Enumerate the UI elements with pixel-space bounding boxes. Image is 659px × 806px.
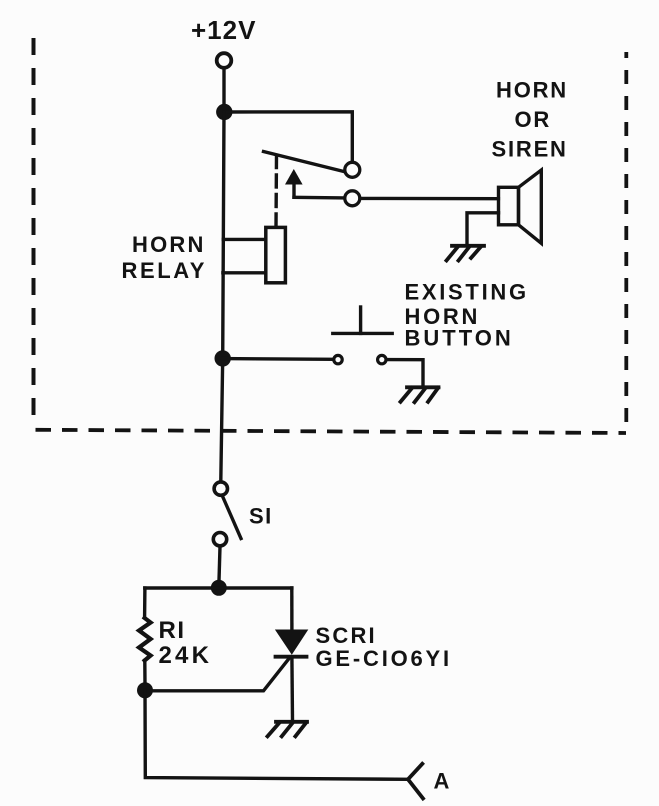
wire relay coil bottom lead — [223, 271, 266, 274]
wire R1 to node J4 — [143, 661, 147, 685]
speaker horn cone — [519, 170, 542, 243]
SCR1 thyristor triangle — [275, 630, 308, 655]
svg-text:A: A — [434, 769, 450, 794]
svg-text:EXISTING: EXISTING — [405, 280, 529, 305]
dashed boundary left side — [32, 38, 36, 424]
speaker (horn) box — [499, 187, 519, 225]
svg-text:24K: 24K — [159, 642, 213, 669]
ground (SCR) — [268, 722, 308, 737]
svg-text:SIREN: SIREN — [492, 136, 568, 161]
horn button right contact — [378, 355, 386, 363]
wire S1 to node J3 — [219, 547, 220, 588]
horn button left contact — [334, 355, 342, 363]
wire top of R1/SCR loop — [145, 586, 292, 590]
relay contact top circle — [345, 162, 360, 177]
node J1 junction dot — [216, 104, 232, 120]
svg-text:GE-CIO6YI: GE-CIO6YI — [316, 646, 452, 671]
node J3 junction dot — [211, 580, 227, 596]
ground (horn button) — [401, 387, 439, 402]
wire left vertical to R1 — [143, 588, 147, 617]
node J4 junction dot — [137, 682, 153, 698]
dashed boundary bottom side — [36, 430, 627, 433]
dashed boundary right side — [624, 52, 628, 433]
svg-text:HORN: HORN — [496, 77, 568, 102]
wire speaker to ground — [467, 213, 499, 245]
svg-text:OR: OR — [515, 107, 552, 132]
SCR1 cathode bar — [276, 655, 307, 659]
wire contact to speaker — [360, 197, 498, 201]
wire SCR cathode to ground — [290, 657, 294, 720]
terminal +12V — [217, 53, 232, 68]
relay coil — [266, 227, 286, 282]
svg-text:RELAY: RELAY — [122, 258, 208, 283]
node A connector — [408, 764, 423, 799]
wire SCR gate — [145, 659, 289, 691]
relay switch arm — [264, 152, 345, 172]
node J2 junction dot — [215, 350, 231, 366]
horn button actuator — [333, 332, 392, 335]
wire button to ground — [387, 360, 424, 387]
relay actuator dashed link — [274, 156, 278, 228]
wire J1 to relay contact (top run) — [224, 112, 352, 161]
svg-text:HORN: HORN — [132, 232, 206, 257]
relay contact bottom circle — [345, 191, 360, 206]
wire terminal to node J1 — [222, 68, 225, 112]
ground (speaker) — [447, 246, 485, 261]
main vertical wire — [221, 112, 224, 481]
svg-text:SI: SI — [249, 504, 273, 529]
wire right vertical to SCR anode — [290, 588, 294, 630]
svg-text:+12V: +12V — [191, 15, 256, 45]
wire J4 down and across to node A — [145, 690, 408, 779]
svg-text:BUTTON: BUTTON — [405, 325, 514, 350]
wire arrow stem to lower contact — [294, 196, 344, 200]
switch S1 bottom contact — [213, 533, 226, 546]
svg-text:RI: RI — [159, 617, 186, 644]
wire relay coil top lead — [223, 238, 265, 241]
switch S1 top contact — [214, 482, 227, 495]
wire J2 to horn button — [223, 357, 333, 361]
svg-text:SCRI: SCRI — [316, 623, 377, 648]
resistor R1 — [139, 618, 151, 661]
switch S1 arm — [223, 498, 241, 539]
relay actuator arrow — [285, 169, 303, 185]
